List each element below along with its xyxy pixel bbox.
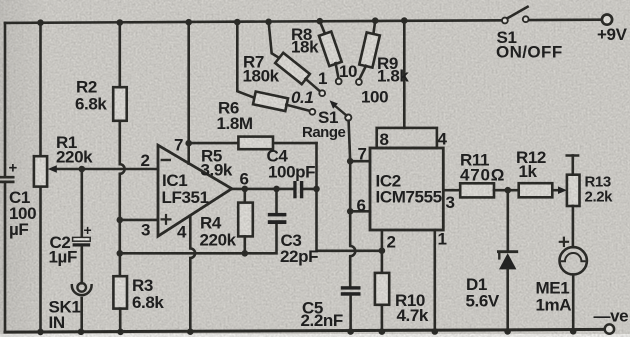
resistor R12 [519,183,553,197]
IC IC2 pins 8/4 top box [377,128,437,148]
wire: R8 branch from rail [320,21,325,34]
wire: C2 top lead [81,169,84,237]
wire: +9V to IC2 pins 8-4 [403,21,406,128]
resistor R10 [375,273,389,305]
terminal -ve [605,324,614,333]
wire: wiper down to pins 7/6 and C5 with hop [349,121,356,286]
switch S1 ON/OFF [502,18,508,24]
node: S1 contact 10 [336,79,342,85]
op-amp plus sign [162,215,171,224]
switch S1 Range wiper [345,115,351,121]
capacitor C2 [73,237,91,241]
wire: R13 to ME1 [572,206,575,247]
wire: R4 top lead [244,189,247,203]
wire: lower feedback run y=253 [120,224,277,253]
wire: IC2 pin7 stub [350,160,370,163]
wire: pin7 stub [187,143,190,163]
wire: R8 to contact 10 [336,63,339,78]
wire: right vertical x=316 and y=251 run to pin2 node [317,143,382,251]
IC IC2 ICM7555 body [370,148,443,230]
resistor R9 [359,32,380,67]
wire: left edge C1 branch [4,23,7,332]
terminal +9V [602,15,612,25]
wire: R9 branch from rail [373,21,375,34]
wire: D1 to 0V rail [506,269,509,331]
capacitor C1 [0,177,13,182]
wire: ME1 to 0V rail [572,275,575,332]
wire: R1 wiper to IC1 pin2 [56,168,159,171]
resistor R11 [460,183,494,197]
wire: C5 to 0V rail [349,296,352,332]
wire: IC2 pin2 lead [381,230,384,251]
wire: R2 to pin3 node with hop over wiper wire [120,121,125,254]
wire: R2 branch from rail [119,23,122,88]
wire: +9V to IC1 pin7 [187,22,190,143]
wire: R7 to contact 1 [306,79,320,91]
resistor R2 [113,87,127,121]
junction dot D1 / R11 / R12 [505,187,512,194]
capacitor C3 [268,213,287,217]
wire: IC2 pin1 to 0V rail [433,230,436,332]
wire: R10 to 0V rail [381,305,384,332]
wire: R9 to contact 100 [359,66,366,79]
wire: R3 to 0V rail [119,309,122,332]
wire: R1 branch vertical [39,23,42,332]
wire: R6 branch from rail [237,22,255,98]
diode D1 zener [498,250,516,253]
wire: node pin3 to R3 [119,253,122,276]
wire: R12 to R13 wiper arrow [552,189,559,192]
wire: +9V top rail [5,20,505,23]
node: S1 contact 0.1 [310,109,316,115]
junction dots IC1 output node [242,186,249,193]
wire: C2 to SK1 [81,247,84,283]
op-amp minus sign [162,159,170,161]
wire: IC2 pin3 to R11 [443,189,460,192]
resistor R8 [319,32,342,66]
wire: R6 to 0.1 contact [286,105,310,111]
wire: D1 top lead [506,190,509,251]
junction dots bottom rail [37,329,44,336]
wire: 0V bottom rail [5,329,605,332]
node: S1 contact 100 [356,79,362,85]
socket SK1 [77,283,86,292]
capacitor C4 [293,181,296,198]
wire: rail from S1 to +9V terminal [529,18,602,21]
resistor R3 [113,276,127,308]
capacitor C5 [341,286,361,289]
resistor R13 (preset) [567,154,578,157]
wire: R11 to R12 [494,189,519,192]
op-amp IC1 triangle [158,145,232,236]
meter ME1 [560,247,587,274]
wire: IC1 pin4 to 0V with hop [190,216,195,332]
wire: R4 bottom lead [244,236,247,253]
resistor R7 [275,53,310,84]
resistor R5 [238,137,273,150]
junction dots top rail [37,19,44,26]
wire: pin2 node to R10 [381,251,384,273]
wire: SK1 to 0V rail [80,298,83,332]
junction dots IC2 pins 7/6 [347,158,354,165]
wire: C3 top lead [275,189,278,213]
resistor R6 [253,92,288,112]
junction dot node A (R1 wiper / C2) [79,166,86,173]
resistor R4 [238,203,253,237]
junction dot IC1 pin7 / +9V [185,140,192,147]
resistor R1 (pot body) [34,156,47,186]
junction dots pin3 node [117,217,124,224]
node: S1 contact 1 [319,90,325,96]
wire: IC2 pin6 stub [350,210,370,213]
wire: R7 branch from rail [269,22,280,59]
node: R1 wiper arrow [48,165,57,173]
wire: pin3 stub [120,219,158,222]
wire: R5 feedback run y=143 [189,142,317,145]
wire: IC1 output [232,188,317,191]
junction dot pin2 node [379,247,386,254]
